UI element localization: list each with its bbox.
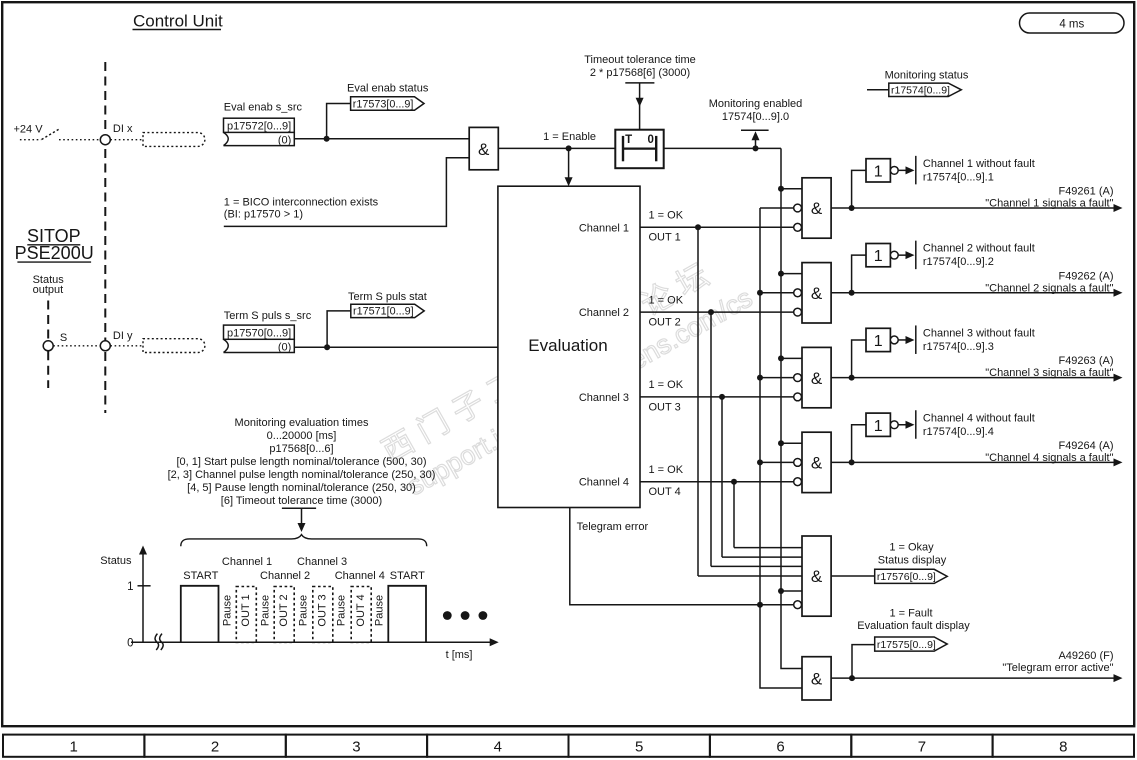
- svg-text:Term S puls stat: Term S puls stat: [348, 291, 427, 303]
- node junction enable bus gate 2: [778, 271, 784, 277]
- wire dotted DI y to connector: [110, 345, 143, 347]
- svg-text:[6] Timeout tolerance time (30: [6] Timeout tolerance time (3000): [221, 495, 382, 507]
- svg-text:OUT 1: OUT 1: [240, 594, 252, 626]
- svg-text:OUT 3: OUT 3: [649, 401, 681, 413]
- wire channel 2 into status AND: [711, 565, 802, 567]
- output connector r17571[0...9]: [351, 304, 424, 317]
- svg-text:r17573[0...9]: r17573[0...9]: [353, 98, 414, 110]
- node junction channel 2 branch: [708, 309, 714, 315]
- svg-text:r17575[0...9]: r17575[0...9]: [877, 639, 936, 651]
- svg-text:4: 4: [494, 739, 502, 756]
- node junction monitoring enabled: [753, 145, 759, 151]
- svg-text:Status: Status: [100, 555, 132, 567]
- AND gate channel 4: [802, 432, 831, 492]
- svg-text:Channel 2: Channel 2: [579, 307, 629, 319]
- node junction enable bus gate 3: [778, 355, 784, 361]
- wire arrow from times to brace: [301, 508, 303, 524]
- wire telegram stub into AND gate channel 4: [760, 461, 794, 463]
- wire inverter 2 to signal bar: [898, 254, 906, 256]
- svg-text:Pause: Pause: [260, 595, 272, 626]
- NOT gate (1) channel 2: [866, 244, 890, 267]
- waveform y-axis: [142, 553, 144, 643]
- svg-text:&: &: [811, 199, 823, 218]
- svg-text:1 = Okay: 1 = Okay: [889, 541, 934, 553]
- svg-text:&: &: [811, 284, 823, 303]
- svg-text:0: 0: [647, 134, 653, 146]
- svg-text:r17571[0...9]: r17571[0...9]: [353, 306, 414, 318]
- node junction telegram/bus: [757, 602, 763, 608]
- svg-text:&: &: [811, 669, 823, 688]
- svg-text:[4, 5] Pause length nominal/to: [4, 5] Pause length nominal/tolerance (2…: [187, 482, 416, 494]
- wire enable down to Evaluation: [568, 148, 570, 178]
- svg-text:p17568[0...6]: p17568[0...6]: [269, 443, 333, 455]
- svg-text:F49264 (A): F49264 (A): [1058, 440, 1113, 452]
- svg-text:OUT 4: OUT 4: [649, 486, 681, 498]
- svg-text:Channel 3 without fault: Channel 3 without fault: [923, 327, 1035, 339]
- NOT gate (1) channel 3: [866, 328, 890, 351]
- display bar monitoring enabled: [741, 129, 769, 131]
- node junction enable bus gate 1: [778, 186, 784, 192]
- svg-text:t [ms]: t [ms]: [446, 649, 473, 661]
- svg-text:Eval enab status: Eval enab status: [347, 82, 429, 94]
- signal bar channel 3: [915, 325, 917, 354]
- svg-text:A49260 (F): A49260 (F): [1058, 650, 1113, 662]
- signal bar channel 4: [915, 410, 917, 439]
- svg-text:DI x: DI x: [113, 123, 133, 135]
- node junction output 3: [849, 375, 855, 381]
- svg-text:"Channel 4 signals a fault": "Channel 4 signals a fault": [985, 452, 1113, 464]
- svg-text:&: &: [478, 140, 490, 159]
- wire channel 3 into status AND: [722, 556, 802, 558]
- node S terminal circle: [43, 341, 53, 351]
- svg-text:Pause: Pause: [298, 595, 310, 626]
- svg-text:(BI: p17570 > 1): (BI: p17570 > 1): [224, 209, 303, 221]
- svg-text:&: &: [811, 369, 823, 388]
- svg-text:1: 1: [874, 418, 883, 435]
- Evaluation function block: [498, 186, 640, 507]
- wire channel 3 OK output: [640, 396, 794, 398]
- NOT gate (1) channel 4: [866, 413, 890, 436]
- svg-text:Channel 1: Channel 1: [579, 222, 629, 234]
- wire branch to inverter 2: [852, 255, 866, 293]
- AND gate U1 (enable): [469, 127, 498, 169]
- wire branch to inverter 3: [852, 340, 866, 378]
- svg-text:F49261 (A): F49261 (A): [1058, 186, 1113, 198]
- svg-text:[2, 3] Channel pulse length no: [2, 3] Channel pulse length nominal/tole…: [168, 469, 436, 481]
- svg-text:Evaluation: Evaluation: [528, 336, 607, 355]
- svg-text:"Channel 1 signals a fault": "Channel 1 signals a fault": [985, 198, 1113, 210]
- svg-text:Channel 4: Channel 4: [579, 477, 629, 489]
- dashed box OUT 3: [313, 587, 333, 643]
- svg-text:p17572[0...9]: p17572[0...9]: [227, 121, 291, 133]
- node junction output 1: [849, 205, 855, 211]
- svg-text:0...20000 [ms]: 0...20000 [ms]: [267, 430, 337, 442]
- svg-text:T: T: [625, 134, 632, 146]
- svg-text:r17574[0...9].2: r17574[0...9].2: [923, 256, 994, 268]
- output connector r17574[0...9]: [889, 83, 962, 96]
- svg-text:r17574[0...9].3: r17574[0...9].3: [923, 341, 994, 353]
- wire dotted S to DI y: [53, 345, 100, 347]
- svg-text:Status display: Status display: [878, 554, 947, 566]
- svg-text:Monitoring evaluation times: Monitoring evaluation times: [235, 417, 369, 429]
- signal bar channel 2: [915, 241, 917, 270]
- svg-text:Channel 1 without fault: Channel 1 without fault: [923, 158, 1035, 170]
- wire branch up to r17571: [327, 311, 351, 347]
- axis break symbol: [155, 634, 159, 650]
- svg-text:[0, 1] Start pulse length nomi: [0, 1] Start pulse length nominal/tolera…: [176, 456, 426, 468]
- svg-text:"Channel 2 signals a fault": "Channel 2 signals a fault": [985, 282, 1113, 294]
- wire timeout parameter into timer: [639, 83, 641, 130]
- wire dashed status stub lower: [47, 351, 49, 388]
- ellipsis dots: [443, 611, 452, 620]
- curly brace over waveform: [181, 535, 427, 547]
- inverted input bubbles gate 1: [794, 204, 802, 212]
- svg-text:OUT 2: OUT 2: [649, 317, 681, 329]
- svg-text:F49263 (A): F49263 (A): [1058, 355, 1113, 367]
- wire channel 2 down to status AND: [710, 312, 712, 566]
- wire enable stub into AND gate channel 3: [781, 357, 802, 359]
- svg-text:r17576[0...9]: r17576[0...9]: [877, 571, 936, 583]
- svg-text:OUT 4: OUT 4: [355, 594, 367, 626]
- node junction enable: [566, 145, 572, 151]
- svg-text:Monitoring status: Monitoring status: [885, 69, 969, 81]
- wire channel 1 OK output: [640, 226, 794, 228]
- svg-text:Channel 4 without fault: Channel 4 without fault: [923, 412, 1035, 424]
- svg-text:(0): (0): [278, 135, 291, 147]
- wire branch to r17575: [852, 645, 875, 679]
- START pulse 2: [388, 586, 426, 643]
- inverted input bubbles gate 2: [794, 289, 802, 297]
- AND gate channel 2: [802, 263, 831, 323]
- wire branch to inverter 1: [852, 170, 866, 208]
- node junction on eval enab wire: [324, 136, 330, 142]
- svg-text:Channel 3: Channel 3: [297, 556, 347, 568]
- watermark (decorative): [376, 253, 757, 502]
- svg-text:1: 1: [70, 739, 78, 756]
- node junction output 2: [849, 290, 855, 296]
- svg-text:1 = BICO interconnection exist: 1 = BICO interconnection exists: [224, 197, 379, 209]
- svg-text:Pause: Pause: [222, 595, 234, 626]
- AND gate evaluation fault: [802, 657, 831, 700]
- node junction telegram bus gate 4: [757, 459, 763, 465]
- dashed box OUT 4: [351, 587, 371, 643]
- inverted input bubbles gate 4: [794, 459, 802, 467]
- svg-text:PSE200U: PSE200U: [15, 243, 94, 263]
- parameter box p17572[0...9]: [224, 118, 295, 145]
- svg-text:5: 5: [635, 739, 643, 756]
- node junction channel 1 branch: [695, 224, 701, 230]
- sampling time box 4 ms: [1020, 13, 1125, 33]
- svg-text:1: 1: [127, 581, 133, 593]
- node junction on term s wire: [324, 344, 330, 350]
- wire enable stub into AND gate channel 4: [781, 442, 802, 444]
- svg-text:1 = OK: 1 = OK: [649, 210, 684, 222]
- wire dashed status stub upper: [47, 301, 49, 341]
- svg-text:OUT 3: OUT 3: [317, 594, 329, 626]
- svg-text:Term S puls s_src: Term S puls s_src: [224, 310, 312, 322]
- svg-text:Evaluation fault display: Evaluation fault display: [857, 620, 970, 632]
- svg-text:Pause: Pause: [336, 595, 348, 626]
- svg-text:1 = OK: 1 = OK: [649, 464, 684, 476]
- svg-text:1: 1: [874, 248, 883, 265]
- AND gate channel 1: [802, 178, 831, 238]
- START pulse 1: [181, 586, 219, 643]
- footer column ruler: [3, 735, 144, 757]
- wire telegram-error vertical bus: [760, 208, 802, 688]
- wire channel 1 into status AND: [698, 575, 802, 577]
- wire timer output to monitoring-enabled corner: [664, 147, 781, 149]
- node junction channel 3 branch: [719, 394, 725, 400]
- wire dotted supply to switch: [20, 139, 41, 141]
- wire AND 3 output: [831, 377, 1114, 379]
- svg-text:1: 1: [874, 333, 883, 350]
- svg-text:7: 7: [918, 739, 926, 756]
- node junction enable bus status gate: [778, 588, 784, 594]
- wire inverter 1 to signal bar: [898, 169, 906, 171]
- svg-text:17574[0...9].0: 17574[0...9].0: [722, 111, 789, 123]
- wire BICO condition to AND gate U1: [224, 158, 469, 227]
- svg-text:6: 6: [776, 739, 784, 756]
- wire channel 4 down to status AND: [733, 482, 735, 548]
- svg-text:1 = Enable: 1 = Enable: [543, 131, 596, 143]
- wire AND 2 output: [831, 292, 1114, 294]
- wire enable stub into AND gate channel 2: [781, 273, 802, 275]
- wire channel 4 OK output: [640, 481, 794, 483]
- output connector r17575[0...9]: [875, 637, 948, 651]
- wire dotted DI x to connector: [110, 139, 143, 141]
- svg-text:OUT 2: OUT 2: [278, 594, 290, 626]
- wire channel 1 down to status AND: [697, 227, 699, 576]
- node junction fault output: [849, 675, 855, 681]
- svg-text:0: 0: [127, 638, 133, 650]
- wire monitoring-enabled vertical bus: [781, 148, 802, 668]
- svg-text:Timeout tolerance time: Timeout tolerance time: [584, 54, 695, 66]
- svg-text:F49262 (A): F49262 (A): [1058, 270, 1113, 282]
- wire telegram stub into AND gate channel 1: [760, 207, 794, 209]
- svg-text:OUT 1: OUT 1: [649, 232, 681, 244]
- wire inverter 3 to signal bar: [898, 339, 906, 341]
- wire AND 1 output: [831, 207, 1114, 209]
- svg-text:1 = OK: 1 = OK: [649, 294, 684, 306]
- output connector r17573[0...9]: [351, 97, 424, 110]
- svg-text:"Channel 3 signals a fault": "Channel 3 signals a fault": [985, 367, 1113, 379]
- svg-text:1 = Fault: 1 = Fault: [889, 608, 932, 620]
- wire fault gate output: [831, 677, 1114, 679]
- wire channel 4 into status AND: [734, 547, 802, 549]
- svg-text:START: START: [183, 570, 218, 582]
- svg-text:output: output: [33, 284, 64, 296]
- parameter bar timeout: [625, 82, 654, 84]
- svg-text:8: 8: [1059, 739, 1067, 756]
- wire channel 2 OK output: [640, 311, 794, 313]
- waveform x-axis: [131, 641, 492, 643]
- svg-text:1 = OK: 1 = OK: [649, 379, 684, 391]
- svg-text:Telegram error: Telegram error: [577, 521, 649, 533]
- svg-text:"Telegram error active": "Telegram error active": [1002, 662, 1113, 674]
- svg-text:2: 2: [211, 739, 219, 756]
- dashed box OUT 1: [236, 587, 256, 643]
- wire U1 output to timer: [498, 147, 615, 149]
- svg-text:Pause: Pause: [374, 595, 386, 626]
- svg-text:(0): (0): [278, 342, 291, 354]
- wire channel 3 down to status AND: [721, 397, 723, 557]
- svg-text:Channel 2 without fault: Channel 2 without fault: [923, 243, 1035, 255]
- wire stub to r17574: [867, 89, 889, 91]
- wire p17570 to Evaluation: [294, 346, 498, 348]
- switch contact blade: [42, 129, 60, 140]
- wire inverter 4 to signal bar: [898, 424, 906, 426]
- parameter bar evaluation times: [282, 507, 316, 509]
- node DI y terminal circle: [100, 341, 110, 351]
- dashed box OUT 2: [274, 587, 294, 643]
- svg-text:r17574[0...9].1: r17574[0...9].1: [923, 171, 994, 183]
- wire p17572 to AND gate U1: [294, 138, 469, 140]
- svg-text:&: &: [811, 454, 823, 473]
- timer block T 0: [615, 130, 663, 169]
- node DI x terminal circle: [100, 135, 110, 145]
- node junction enable bus gate 4: [778, 440, 784, 446]
- output connector r17576[0...9]: [875, 569, 948, 583]
- svg-text:+24 V: +24 V: [14, 124, 44, 136]
- wire telegram error from Evaluation: [570, 508, 794, 605]
- svg-text:3: 3: [352, 739, 360, 756]
- svg-text:Eval enab s_src: Eval enab s_src: [224, 102, 303, 114]
- svg-text:Channel 3: Channel 3: [579, 392, 629, 404]
- svg-text:r17574[0...9]: r17574[0...9]: [891, 85, 950, 97]
- svg-text:Channel 1: Channel 1: [222, 556, 272, 568]
- wire enable stub into AND gate channel 1: [781, 188, 802, 190]
- dashed boundary line (Control Unit border): [104, 62, 106, 413]
- signal bar channel 1: [915, 156, 917, 185]
- svg-text:2 * p17568[6] (3000): 2 * p17568[6] (3000): [590, 67, 690, 79]
- svg-text:S: S: [60, 332, 67, 344]
- wire up-arrow to monitoring enabled bar: [755, 139, 757, 149]
- wire dotted switch to DI x: [59, 139, 100, 141]
- wire telegram stub into AND gate channel 3: [760, 377, 794, 379]
- wire status gate output to r17576: [831, 575, 875, 577]
- connector stub (dotted stadium) row 2: [143, 339, 205, 353]
- node junction telegram bus gate 2: [757, 290, 763, 296]
- node junction telegram bus gate 3: [757, 375, 763, 381]
- svg-text:DI y: DI y: [113, 330, 133, 342]
- svg-text:&: &: [811, 567, 823, 586]
- svg-text:Channel 2: Channel 2: [260, 570, 310, 582]
- connector stub (dotted stadium) row 1: [143, 133, 205, 147]
- wire telegram stub into AND gate channel 2: [760, 292, 794, 294]
- svg-text:Monitoring enabled: Monitoring enabled: [709, 98, 803, 110]
- wire branch to inverter 4: [852, 425, 866, 463]
- AND gate status display: [802, 536, 831, 616]
- AND gate channel 3: [802, 347, 831, 407]
- wire AND 4 output: [831, 461, 1114, 463]
- svg-text:1: 1: [874, 163, 883, 180]
- svg-text:START: START: [390, 570, 425, 582]
- svg-text:Channel 4: Channel 4: [335, 570, 385, 582]
- svg-text:Control Unit: Control Unit: [133, 12, 223, 31]
- wire enable stub into status gate: [781, 590, 802, 592]
- node junction channel 4 branch: [731, 479, 737, 485]
- svg-text:r17574[0...9].4: r17574[0...9].4: [923, 426, 994, 438]
- inverted input bubble status gate: [794, 601, 802, 609]
- inverted input bubbles gate 3: [794, 374, 802, 382]
- wire branch up to r17573: [327, 104, 351, 139]
- parameter box p17570[0...9]: [224, 325, 295, 352]
- NOT gate (1) channel 1: [866, 159, 890, 182]
- svg-text:p17570[0...9]: p17570[0...9]: [227, 327, 291, 339]
- node junction output 4: [849, 459, 855, 465]
- svg-text:4 ms: 4 ms: [1059, 18, 1084, 30]
